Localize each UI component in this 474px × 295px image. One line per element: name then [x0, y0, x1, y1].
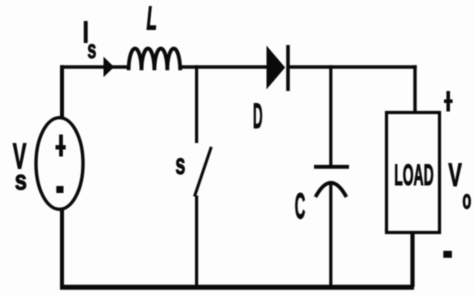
- bottom rail wire: [60, 285, 414, 290]
- svg-text:LOAD: LOAD: [394, 158, 433, 191]
- current arrow Is: [104, 58, 113, 76]
- label Vs: [13, 137, 27, 197]
- wire: top-right drop to load: [413, 65, 416, 113]
- wire: arrow to inductor: [112, 65, 130, 69]
- label Is: [83, 15, 97, 64]
- label Vo: [448, 157, 471, 215]
- wire: top rail left segment (source to arrow): [60, 65, 105, 69]
- voltage source Vs ellipse: [36, 118, 83, 210]
- wire: left rail lower (source bottom to bottom rail): [60, 209, 64, 289]
- output minus terminal (square): [443, 251, 452, 258]
- svg-text:C: C: [295, 186, 306, 227]
- wire: capacitor branch lower: [329, 184, 332, 288]
- wire: switch branch lower: [195, 196, 198, 288]
- svg-text:V: V: [448, 157, 461, 193]
- output plus terminal: [444, 91, 453, 112]
- wire: inductor to diode anode: [181, 65, 268, 69]
- diode D triangle: [267, 47, 285, 88]
- capacitor C top plate: [314, 165, 349, 169]
- source minus mark (square): [56, 186, 63, 193]
- svg-text:D: D: [253, 96, 263, 136]
- svg-text:s: s: [15, 165, 27, 196]
- wire: diode cathode to top-right corner: [288, 65, 417, 69]
- diode D cathode bar: [286, 45, 290, 91]
- capacitor C curved plate: [316, 183, 347, 197]
- load box: [387, 113, 440, 233]
- svg-text:L: L: [147, 0, 157, 37]
- source plus mark: [56, 135, 66, 157]
- svg-text:s: s: [87, 34, 96, 64]
- svg-text:s: s: [175, 149, 185, 182]
- wire: switch branch upper: [195, 65, 198, 143]
- wire: load bottom to bottom rail: [410, 232, 414, 287]
- inductor L (4 humps): [129, 48, 181, 70]
- switch S blade: [195, 147, 212, 197]
- wire: left rail upper (top rail down to source top): [60, 65, 64, 119]
- wire: capacitor branch upper: [329, 65, 332, 167]
- svg-text:o: o: [462, 185, 471, 215]
